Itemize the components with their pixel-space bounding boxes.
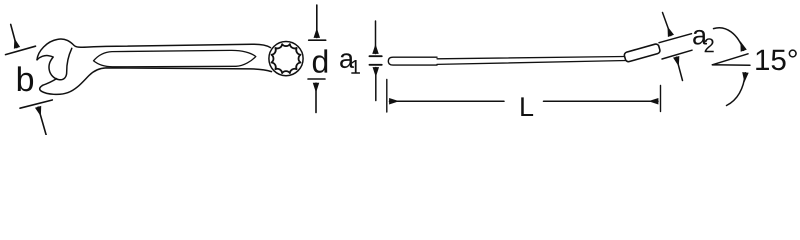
side view: ring boss (tilted pill) [624, 43, 661, 62]
dimension a2: lower tick [662, 50, 692, 59]
shaft inner panel (lens) [94, 50, 256, 66]
wrench plan view: lower outer contour (lower jaw lobe, neck, shaft bottom) [40, 68, 272, 94]
side view: handle bottom edge [437, 61, 627, 65]
dimension a2: upper arrow [663, 13, 671, 36]
dimension d: upper tick [309, 39, 326, 41]
label 15deg [756, 49, 797, 70]
dimension b: lower tick [20, 100, 52, 108]
dimension a2: upper tick [659, 34, 692, 43]
dimension L: left extension line [386, 80, 388, 113]
dimension a1: upper arrow [375, 21, 377, 54]
15deg upper curved arrow [714, 28, 744, 51]
label d [313, 49, 327, 73]
wrench plan view: open-end head outer contour [37, 39, 271, 60]
dimension L: right arrow [544, 100, 659, 102]
open-end mouth: lower jaw flat [42, 79, 56, 86]
dimension d: lower arrow [315, 83, 317, 112]
dimension a1: label ticks [370, 55, 382, 57]
label a1 [340, 53, 354, 68]
dimension d: lower tick [308, 78, 325, 80]
side view: head section with rounded left end [388, 57, 437, 65]
ring end: outer circle [269, 42, 303, 76]
15deg wedge [712, 54, 750, 66]
15deg lower curved arrow [727, 73, 746, 106]
label b [18, 66, 33, 91]
dimension b: lower arrow [38, 107, 46, 135]
label L [521, 97, 533, 116]
label a2 [693, 30, 707, 45]
dimension d: upper arrow [316, 5, 318, 38]
dimension a2: lower arrow [676, 57, 682, 80]
dimension b: upper tick [6, 46, 36, 54]
dimension b: upper arrow [11, 24, 17, 47]
ring end: 12-point scallop bore [272, 44, 301, 73]
dimension L: left arrow [390, 100, 505, 102]
dimension a1: lower arrow [375, 68, 377, 101]
open-end mouth: upper flat, throat and slot right wall [37, 48, 72, 79]
dimension L: right extension line [660, 86, 662, 112]
side view: handle top edge [437, 57, 625, 59]
